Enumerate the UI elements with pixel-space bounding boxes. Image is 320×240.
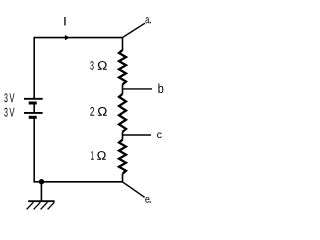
battery B1 plate short bbox=[29, 102, 37, 105]
resistor R2 2 ohm bbox=[119, 94, 126, 132]
node a bbox=[146, 17, 151, 23]
node a lead bbox=[123, 23, 145, 37]
battery B1 plate long bbox=[24, 98, 43, 100]
wire left lower bbox=[33, 117, 35, 182]
label 1 ohm bbox=[91, 151, 106, 160]
resistor R1 3 ohm bbox=[119, 50, 126, 85]
battery B2 plate long bbox=[24, 112, 43, 114]
wire R2 to c bbox=[122, 132, 124, 140]
node e lead bbox=[123, 182, 145, 197]
resistor R3 1 ohm bbox=[119, 140, 126, 174]
node e bbox=[145, 197, 150, 203]
wire bottom bbox=[34, 181, 122, 183]
wire R1 to b bbox=[122, 85, 124, 94]
wire ground stem bbox=[40, 182, 42, 202]
label 3 ohm bbox=[90, 61, 107, 70]
battery B2 plate short bbox=[29, 116, 37, 119]
ground hatch bbox=[27, 202, 55, 209]
label I bbox=[64, 17, 65, 25]
wire battery mid bbox=[33, 103, 35, 113]
wire left upper bbox=[33, 37, 35, 99]
label 3V (B1) bbox=[4, 93, 14, 102]
node c bbox=[157, 133, 162, 139]
wire R3 to bottom bbox=[122, 174, 124, 182]
label 3V (B2) bbox=[4, 108, 14, 117]
wire right upper bbox=[122, 37, 124, 51]
ground bar bbox=[28, 200, 54, 202]
label 2 ohm bbox=[90, 107, 107, 116]
node c lead bbox=[123, 134, 152, 136]
node b bbox=[158, 83, 163, 93]
wire top bbox=[34, 37, 122, 39]
node b lead bbox=[123, 88, 153, 90]
current arrow bbox=[65, 35, 70, 40]
junction dot ground tap bbox=[39, 179, 44, 184]
